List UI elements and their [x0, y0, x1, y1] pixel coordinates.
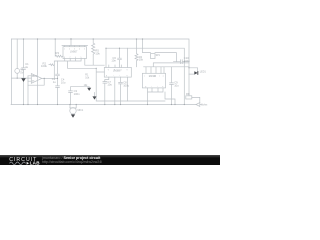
wire OA1 feedback loop: [28, 76, 44, 85]
wire jog: [165, 92, 175, 105]
capacitor C8: [119, 77, 123, 104]
pin label smudges: [32, 48, 164, 88]
wire U3 bottom pins: [148, 88, 164, 105]
svg-text:10u: 10u: [107, 83, 112, 87]
wire U1 vertical feed: [70, 39, 72, 46]
resistor R8 box: [186, 96, 192, 99]
diode loop: [189, 68, 198, 75]
svg-text:4: 4: [79, 48, 80, 50]
svg-text:5V: 5V: [20, 70, 23, 74]
output arrow: [196, 103, 201, 107]
svg-text:10u: 10u: [61, 80, 66, 84]
svg-text:8ohm: 8ohm: [201, 104, 207, 107]
svg-text:5: 5: [84, 48, 85, 50]
wire centre loop: [106, 48, 184, 104]
wire V1 bottom lead: [16, 73, 18, 78]
wire OA1 output: [44, 77, 57, 79]
svg-text:SP1: SP1: [156, 55, 161, 57]
svg-text:LM386: LM386: [149, 75, 157, 78]
wire U3 top pins: [146, 67, 164, 74]
svg-text:1: 1: [64, 48, 65, 50]
caption line 1: [42, 156, 100, 160]
capacitor C4: [56, 61, 60, 105]
ground G2 stub: [88, 86, 90, 89]
component value labels: [20, 49, 207, 112]
svg-text:LAB: LAB: [30, 160, 40, 165]
svg-text:v: v: [144, 75, 145, 77]
wire to C10: [155, 53, 176, 62]
wire op-amp input: [11, 77, 31, 79]
svg-text:100k: 100k: [41, 64, 47, 68]
svg-text:5: 5: [81, 57, 82, 59]
svg-text:g: g: [106, 75, 107, 77]
wire lower mid bus: [96, 68, 165, 101]
capacitor C6: [118, 48, 122, 67]
wire vertical rail x36.5: [37, 39, 39, 105]
svg-text:10k: 10k: [95, 51, 100, 55]
wire top supply bus: [11, 39, 189, 68]
wire bottom ground bus: [11, 104, 196, 106]
caption line 2: [42, 160, 102, 164]
svg-text:8: 8: [64, 57, 65, 59]
speaker box LS1: [151, 54, 156, 59]
svg-text:o: o: [127, 75, 128, 77]
diode D1: [194, 71, 198, 74]
svg-text:−: −: [32, 81, 33, 83]
svg-text:100n: 100n: [74, 92, 80, 96]
footer bar: [0, 155, 220, 165]
capacitor C1: [22, 39, 26, 105]
capacitor C3: [69, 87, 90, 105]
svg-text:100u: 100u: [123, 84, 129, 88]
capacitor C7: [103, 77, 109, 104]
ground symbol G3: [93, 96, 97, 99]
svg-text:V: V: [108, 69, 110, 71]
wire left rail: [10, 39, 12, 105]
wire U2 pin drops: [115, 77, 128, 104]
svg-text:LED1: LED1: [200, 71, 207, 74]
svg-text:1u: 1u: [25, 65, 28, 69]
svg-text:o: o: [162, 86, 163, 88]
svg-text:100n: 100n: [184, 59, 190, 63]
wire U1 bottom pins: [54, 59, 104, 79]
voltage source V1: [15, 69, 20, 74]
svg-text:6: 6: [75, 57, 76, 59]
resistor R5: [92, 39, 95, 65]
wire diode to bus: [189, 74, 200, 103]
svg-text:OA1: OA1: [32, 75, 37, 78]
wire vertical rail x29: [27, 76, 29, 105]
svg-text:g: g: [145, 86, 146, 88]
svg-text:10u: 10u: [174, 84, 179, 88]
svg-text:MIC1: MIC1: [78, 109, 84, 112]
capacitor C10: [174, 60, 190, 64]
resistor R3: [55, 39, 63, 57]
op-amp OA1: [31, 74, 42, 84]
svg-text:o: o: [163, 75, 164, 77]
svg-text:v: v: [159, 75, 160, 77]
svg-text:1u: 1u: [53, 80, 56, 84]
wire speaker feed: [143, 39, 151, 53]
wire U1 top pin rail: [62, 46, 88, 47]
svg-text:G: G: [120, 69, 122, 71]
IC U1: [63, 47, 87, 59]
microphone MIC1: [70, 108, 76, 114]
resistor R4: [135, 39, 138, 67]
svg-text:10k: 10k: [139, 58, 144, 62]
ground G3: [94, 93, 96, 97]
svg-text:R8: R8: [186, 92, 190, 96]
wire right mid rails: [144, 63, 189, 67]
wire mic drop: [70, 105, 76, 108]
svg-text:LM567: LM567: [70, 50, 78, 53]
svg-text:LM386: LM386: [113, 70, 121, 73]
schematic drawing: [0, 0, 220, 165]
IC U2: [104, 67, 131, 77]
svg-text:10k: 10k: [85, 77, 90, 80]
resistor R2: [49, 64, 55, 66]
CircuitLab logo: [0, 155, 40, 166]
ground symbol G2: [87, 88, 91, 91]
ground symbol source: [21, 71, 198, 118]
svg-text:7: 7: [70, 57, 71, 59]
ground symbol mic: [71, 114, 75, 117]
svg-text:V: V: [127, 69, 129, 71]
wire V1 branch vertical: [16, 39, 18, 69]
IC U3: [142, 73, 165, 88]
svg-text:10n: 10n: [111, 59, 116, 63]
junction dots: [17, 38, 190, 105]
svg-text:R3: R3: [56, 51, 60, 55]
capacitor C9: [170, 67, 174, 105]
